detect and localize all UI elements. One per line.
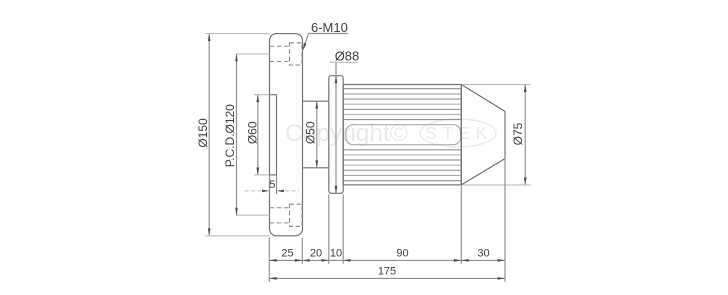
- chain dimension line: [269, 259, 505, 261]
- svg-text:Ø60: Ø60: [246, 121, 260, 144]
- svg-text:Ø75: Ø75: [511, 122, 525, 145]
- svg-text:6-M10: 6-M10: [311, 20, 348, 35]
- end section bottom chamfer: [461, 159, 505, 185]
- svg-text:30: 30: [477, 247, 489, 259]
- svg-text:5: 5: [269, 179, 275, 191]
- chain extension 25/20: [301, 238, 303, 264]
- svg-text:20: 20: [310, 247, 322, 259]
- chain extension 30-right: [504, 156, 506, 283]
- top bolt hole hidden lines: [270, 45, 290, 47]
- depth5 extension right: [276, 175, 278, 194]
- svg-text:10: 10: [330, 247, 342, 259]
- depth5 dimension line with dashes: [245, 190, 262, 192]
- end section left edge: [460, 85, 462, 185]
- pcd120 dimension line: [236, 54, 238, 215]
- overall dimension line 175: [269, 277, 505, 279]
- dia75 dimension line: [524, 85, 526, 185]
- chain extension 25-left: [268, 238, 270, 283]
- bottom bolt hole hidden lines: [270, 207, 290, 209]
- dia150 top extension: [205, 33, 270, 35]
- end section top chamfer: [461, 85, 505, 112]
- spline tooth lines: [344, 89, 461, 181]
- hub top edge: [303, 100, 329, 102]
- dia60 bottom extension: [254, 174, 270, 176]
- dia75 top extension: [462, 84, 530, 86]
- svg-text:25: 25: [281, 247, 293, 259]
- dia75 bottom extension: [462, 184, 530, 186]
- svg-text:Ø88: Ø88: [335, 49, 360, 64]
- dia60 dimension line: [257, 95, 259, 175]
- 6-M10 leader line: [309, 33, 349, 35]
- spline root capsule: [346, 125, 461, 145]
- svg-text:90: 90: [396, 247, 408, 259]
- dia150 bottom extension: [205, 235, 270, 237]
- svg-text:Ø150: Ø150: [196, 118, 210, 148]
- recess top step: [270, 94, 277, 96]
- top bolt hole thread box: [290, 43, 303, 65]
- chain extension 90/30: [460, 186, 462, 264]
- dia50 dimension line: [316, 101, 318, 168]
- bottom hole centerline: [237, 214, 270, 216]
- chain extension 10/90: [342, 194, 344, 263]
- collar outline: [329, 76, 343, 194]
- recess bottom step: [270, 174, 277, 176]
- spline body outline: [343, 85, 461, 185]
- dia60 top extension: [254, 94, 270, 96]
- end section right edge: [504, 111, 506, 158]
- flange plate outline: [270, 34, 303, 236]
- dia88 dimension line: [335, 62, 337, 193]
- hub bottom edge: [303, 167, 329, 169]
- watermark logo ellipse: [420, 119, 496, 147]
- depth5 extension left: [269, 176, 271, 194]
- svg-text:175: 175: [378, 265, 396, 277]
- pilot recess step line: [276, 95, 278, 175]
- dia88 leader underline: [330, 61, 358, 63]
- svg-text:STEK: STEK: [425, 123, 493, 143]
- bottom bolt hole thread box: [290, 204, 303, 226]
- dia150 dimension line: [208, 34, 210, 236]
- top hole centerline: [237, 53, 270, 55]
- svg-text:P.C.D.Ø120: P.C.D.Ø120: [223, 104, 237, 167]
- svg-text:Ø50: Ø50: [304, 121, 318, 144]
- chain extension 20/10: [328, 194, 330, 263]
